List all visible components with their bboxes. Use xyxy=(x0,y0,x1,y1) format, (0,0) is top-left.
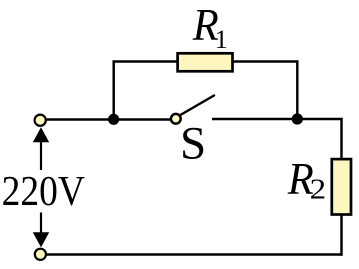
arrow up (source polarity, upper) xyxy=(40,141,42,171)
junction node (left, at switch branch) xyxy=(108,114,119,125)
wire: vertical from R1 branch down to right junction xyxy=(296,60,298,120)
wire: R1 branch right horizontal xyxy=(233,60,298,62)
wire: R2 bottom down to bottom rail xyxy=(340,214,342,256)
arrow down (source polarity, lower) xyxy=(40,213,42,235)
resistor R1 (box) xyxy=(178,53,233,71)
svg-text:1: 1 xyxy=(215,25,228,54)
wire: R1 branch left horizontal xyxy=(113,60,178,62)
wire: bottom rail xyxy=(44,253,343,255)
wire: top rail left (terminal to switch) xyxy=(44,118,172,120)
svg-text:S: S xyxy=(180,118,206,170)
wire: right rail down to R2 top xyxy=(340,118,342,160)
svg-text:2: 2 xyxy=(310,174,327,205)
switch S lever (open) xyxy=(180,96,215,116)
label R1 xyxy=(192,0,228,54)
resistor R2 (box) xyxy=(332,159,351,214)
source terminal (top) xyxy=(35,115,46,126)
source terminal (bottom) xyxy=(35,249,46,260)
wire: top rail right (switch to right corner) xyxy=(212,118,343,120)
label R2 xyxy=(287,153,326,205)
switch S pivot contact xyxy=(171,114,181,124)
svg-text:220V: 220V xyxy=(2,168,86,215)
junction node (right, below R1) xyxy=(292,113,303,124)
wire: vertical from left junction up to R1 branch xyxy=(112,60,114,120)
